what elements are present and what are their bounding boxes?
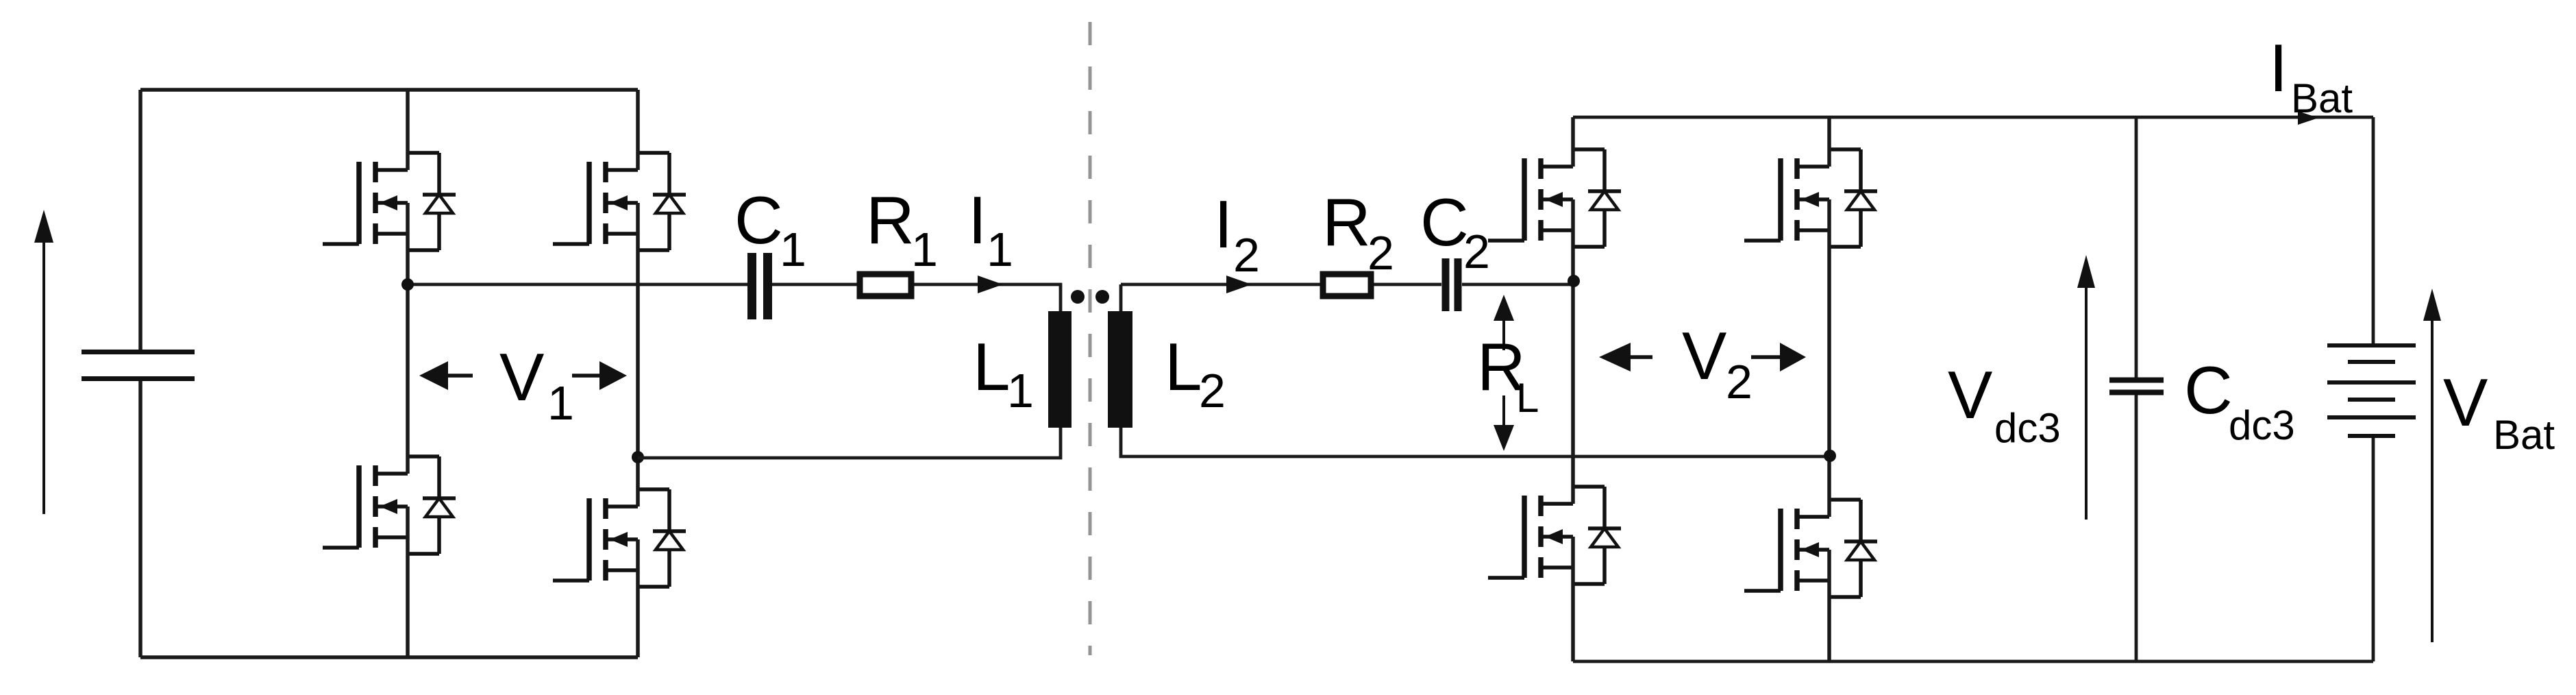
svg-text:I: I	[1214, 186, 1233, 262]
svg-text:Bat: Bat	[2493, 412, 2555, 458]
svg-text:V: V	[1948, 357, 1992, 432]
svg-text:L: L	[973, 329, 1011, 404]
svg-text:I: I	[968, 182, 987, 258]
svg-text:2: 2	[1199, 364, 1226, 417]
svg-text:dc3: dc3	[1994, 405, 2061, 451]
svg-text:I: I	[2269, 30, 2288, 106]
svg-text:1: 1	[1007, 364, 1034, 417]
svg-text:1: 1	[780, 223, 806, 276]
svg-text:C: C	[734, 182, 783, 258]
svg-text:1: 1	[547, 376, 574, 430]
svg-text:C: C	[2184, 352, 2233, 428]
svg-text:R: R	[866, 182, 915, 258]
svg-text:L: L	[1516, 375, 1539, 421]
svg-text:2: 2	[1726, 355, 1753, 409]
svg-text:1: 1	[911, 223, 938, 276]
svg-text:Bat: Bat	[2291, 75, 2353, 121]
svg-text:dc3: dc3	[2229, 402, 2295, 448]
svg-text:V: V	[1682, 318, 1726, 393]
svg-text:2: 2	[1233, 228, 1260, 282]
svg-text:2: 2	[1367, 226, 1394, 280]
svg-text:V: V	[499, 339, 544, 415]
svg-text:C: C	[1420, 184, 1469, 260]
svg-text:1: 1	[987, 223, 1013, 276]
svg-text:R: R	[1322, 184, 1371, 260]
svg-text:2: 2	[1463, 225, 1490, 278]
svg-text:V: V	[2443, 365, 2488, 440]
svg-text:L: L	[1165, 329, 1202, 404]
